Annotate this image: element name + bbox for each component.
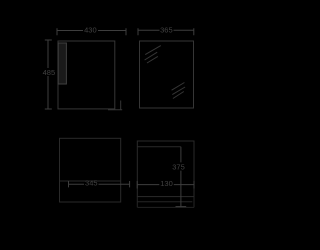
svg-text:365: 365 (160, 26, 173, 35)
dimension 485: end ticks (left) (45, 40, 52, 109)
dimension 365: line (138, 29, 194, 31)
dimension 365: end ticks (top-right) (138, 28, 194, 35)
svg-text:130: 130 (160, 179, 173, 188)
bottom-left side-view outline (60, 138, 121, 202)
dimension 375: bottom tick (176, 206, 187, 208)
svg-text:375: 375 (172, 162, 185, 171)
svg-text:345: 345 (85, 178, 98, 187)
bottom-right side-view inner top line (137, 146, 181, 148)
bottom-right side-view outline (137, 141, 194, 197)
dimension 430: line (57, 30, 126, 32)
svg-text:430: 430 (84, 26, 97, 35)
bottom-right side-view bottom line (137, 206, 194, 208)
cabinet front outline (top-left object) (58, 41, 115, 109)
cabinet base step lines (108, 101, 122, 110)
dimension 130: line (137, 184, 194, 186)
mirror outline (top-right object) (140, 41, 194, 108)
dimension 130: end ticks (137, 181, 194, 189)
cabinet door bar (filled) (58, 43, 66, 84)
mirror glass hatch upper (145, 46, 161, 63)
dimension 345: line (69, 183, 130, 185)
mirror glass hatch lower (172, 83, 186, 99)
dimension 345: end ticks (69, 181, 130, 187)
bottom-right side-view lower edges (137, 197, 194, 208)
bottom-left side-view inner line (60, 180, 121, 182)
svg-text:485: 485 (43, 68, 56, 77)
dimension 485: line (47, 40, 49, 109)
dimension 430: end ticks (top-left) (57, 28, 126, 35)
dimension 375: line (vertical) (180, 147, 182, 207)
